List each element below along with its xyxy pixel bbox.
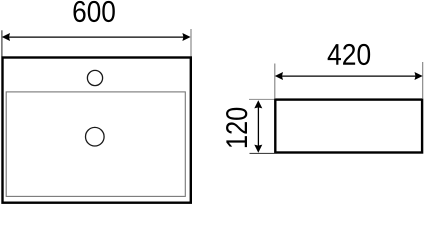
basin outer rect bbox=[3, 58, 191, 203]
arrowhead up bbox=[254, 100, 262, 108]
extension line left (420) bbox=[274, 64, 276, 99]
basin inner rect bbox=[6, 92, 185, 196]
dimension line 600 bbox=[8, 36, 185, 38]
label 120 (rotated) bbox=[226, 108, 247, 147]
dimension line 120 bbox=[257, 106, 259, 147]
extension line right (420) bbox=[422, 62, 424, 98]
dimension line 420 bbox=[281, 75, 417, 77]
arrowhead left bbox=[2, 33, 10, 41]
faucet hole bbox=[87, 70, 102, 85]
label 600 bbox=[73, 1, 114, 22]
drain hole bbox=[86, 127, 105, 146]
side view rect bbox=[275, 100, 422, 153]
arrowhead right bbox=[415, 72, 423, 80]
label 420 bbox=[328, 44, 371, 65]
extension line right bbox=[190, 29, 192, 57]
arrowhead right bbox=[182, 33, 190, 41]
extension line top (120) bbox=[249, 98, 274, 100]
arrowhead down bbox=[254, 145, 262, 153]
extension line bottom (120) bbox=[250, 152, 278, 154]
extension line left bbox=[1, 30, 3, 56]
arrowhead left bbox=[275, 72, 283, 80]
